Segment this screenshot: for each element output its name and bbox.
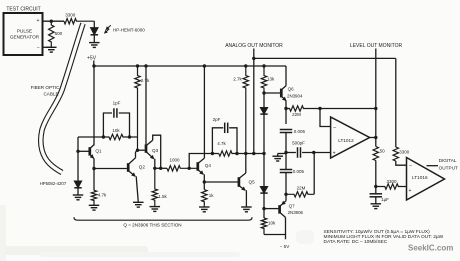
svg-text:Q2: Q2: [139, 165, 146, 170]
svg-text:22M: 22M: [297, 186, 306, 191]
wire Q4 collector down: [203, 174, 205, 189]
wire minus input: [320, 109, 331, 127]
svg-text:DATA RATE: DC – 10Mb/SEC: DATA RATE: DC – 10Mb/SEC: [324, 239, 388, 245]
resistor 50: [373, 147, 378, 161]
resistor 1000 series: [167, 166, 197, 171]
svg-text:FIBER OPTIC: FIBER OPTIC: [31, 85, 61, 90]
svg-text:4.7k: 4.7k: [98, 193, 107, 198]
transistor Q5: [238, 177, 241, 187]
wire diode D1 to output node: [263, 114, 265, 153]
wire Q1 base: [78, 150, 89, 152]
node feedback right: [128, 135, 131, 138]
resistor 2.7k second: [243, 66, 248, 154]
wire to -5V: [264, 235, 286, 240]
node output to diode column: [262, 152, 265, 155]
feedback 2 resistor wire: [189, 154, 219, 169]
svg-text:DIGITAL: DIGITAL: [439, 158, 457, 163]
node photodiode to Q1 base: [76, 150, 79, 153]
photodiode column wire: [77, 137, 79, 181]
ground mid node: [272, 155, 283, 157]
svg-text:+: +: [333, 150, 336, 156]
svg-text:OUTPUT: OUTPUT: [439, 165, 458, 170]
svg-text:3300: 3300: [386, 179, 397, 184]
light emission arrows: [106, 25, 111, 29]
svg-text:Q = 2N3906 THIS SECTION: Q = 2N3906 THIS SECTION: [123, 223, 181, 228]
wire level out monitor: [375, 49, 377, 109]
transistor Q3: [145, 144, 148, 152]
wire pulse generator output to resistor network: [43, 20, 65, 22]
node feedback tap: [318, 107, 321, 110]
node feedback left: [102, 135, 105, 138]
resistor 10k bias: [261, 218, 266, 235]
resistor 4.7k first stage: [91, 190, 96, 205]
svg-text:ANALOG OUT MONITOR: ANALOG OUT MONITOR: [225, 43, 283, 49]
wire pulse generator negative to ground: [43, 46, 52, 48]
+5V rail: [94, 65, 286, 67]
wire feedback to output: [375, 109, 377, 147]
node level monitor: [374, 107, 377, 110]
node 2pF right: [235, 152, 238, 155]
svg-text:Q4: Q4: [205, 163, 212, 168]
svg-text:1.5k: 1.5k: [158, 194, 167, 199]
transistor Q1: [88, 147, 91, 155]
wire diode column down: [263, 154, 265, 187]
transistor Q7 2N3906: [278, 205, 281, 213]
op-amp U2 LT1016: [407, 158, 445, 201]
wire Q6 collector to rail: [285, 66, 287, 86]
node rail 13k: [262, 64, 265, 67]
resistor 22M upper: [286, 106, 320, 111]
svg-text:2.7k: 2.7k: [233, 77, 242, 82]
svg-text:Q1: Q1: [95, 149, 102, 154]
resistor 3300 to comparator plus: [376, 184, 407, 189]
svg-text:500pF: 500pF: [292, 140, 305, 145]
wire Q2 collector to ground: [136, 176, 138, 202]
node Q3 collector: [153, 167, 156, 170]
wire Q3 base: [138, 149, 145, 151]
ground below photodiode: [73, 194, 84, 196]
svg-text:2pF: 2pF: [213, 117, 221, 122]
wire Q7 base: [264, 208, 278, 210]
resistor 10k feedback: [78, 134, 138, 139]
svg-text:1000: 1000: [169, 158, 180, 163]
ground below LED: [89, 42, 100, 44]
wire 13k column down: [263, 93, 265, 108]
ground below 1.5k: [150, 206, 161, 208]
svg-text:SeekIC.com: SeekIC.com: [408, 244, 453, 253]
LED HP-HEMT-6000 anode wire: [93, 21, 95, 27]
svg-text:− 5V: − 5V: [280, 244, 291, 249]
wire Q4 collector to Q5 base: [204, 181, 237, 183]
svg-text:1µF: 1µF: [381, 197, 389, 202]
resistor 13k: [261, 66, 266, 93]
ground below 4.7k: [89, 204, 100, 206]
svg-text:3300: 3300: [399, 149, 410, 154]
wire Q1 collector down: [93, 158, 95, 190]
svg-text:Q5: Q5: [249, 180, 256, 185]
node plus input: [312, 151, 315, 154]
node rail Q3: [144, 64, 147, 67]
node Q1 collector output: [92, 167, 95, 170]
svg-text:PULSE: PULSE: [17, 28, 32, 33]
ground below 1k: [199, 206, 210, 208]
wire 22M lower to plus input: [313, 153, 315, 195]
wire rail to Q3: [145, 66, 147, 144]
svg-text:LT1012: LT1012: [338, 138, 354, 143]
svg-text:LT1016: LT1016: [412, 175, 428, 180]
svg-text:LEVEL OUT MONITOR: LEVEL OUT MONITOR: [350, 43, 403, 49]
svg-text:Q6: Q6: [288, 87, 295, 92]
ground below 1uF: [371, 203, 382, 205]
svg-text:10k: 10k: [112, 128, 120, 133]
resistor 3300 series: [64, 19, 94, 24]
transistor Q2: [127, 163, 130, 172]
svg-text:+: +: [409, 188, 412, 194]
node second feedback tap: [188, 167, 191, 170]
node rail at Q1 emitter: [92, 64, 95, 67]
ground stub mid node: [278, 153, 286, 155]
ground below Q2: [133, 201, 144, 203]
wire rail to Q1 emitter: [93, 66, 95, 145]
node Q7 collector / 22M lower tap: [284, 193, 287, 196]
node 3300 tap: [374, 185, 377, 188]
wire Q6 base: [264, 92, 280, 94]
svg-text:3300: 3300: [65, 13, 76, 18]
wire op-amp output: [370, 137, 376, 139]
node Q3 base: [136, 149, 139, 152]
node op-amp output: [374, 136, 377, 139]
svg-text:0.005: 0.005: [293, 169, 305, 174]
svg-text:−: −: [333, 125, 336, 131]
transistor Q4: [196, 162, 199, 171]
feedback capacitor 1pF: [103, 113, 112, 137]
node 2pF left: [211, 152, 214, 155]
svg-text:4.7k: 4.7k: [217, 141, 226, 146]
photodiode HP5082-4207: [74, 181, 81, 188]
svg-text:HP-HEMT-6000: HP-HEMT-6000: [113, 27, 145, 32]
svg-text:−: −: [37, 45, 40, 51]
svg-text:0.005: 0.005: [294, 129, 306, 134]
node rail 2.7k: [136, 64, 139, 67]
node rail 2.7k second: [244, 64, 247, 67]
wire Q1 collector to Q2 base: [94, 168, 127, 170]
op-amp U1 LT1012: [331, 117, 370, 158]
transistor Q6 2N3904: [280, 89, 283, 98]
capacitor 2pF: [212, 128, 223, 154]
test circuit box: [4, 13, 43, 55]
node 1.5k tap: [159, 167, 162, 170]
wire second stage output line: [155, 167, 167, 169]
resistor 2.7k first: [135, 66, 140, 150]
node mid column: [284, 151, 287, 154]
wire Q3 emitter jog: [153, 135, 161, 168]
svg-text:13k: 13k: [267, 77, 275, 82]
svg-text:−: −: [409, 164, 412, 170]
svg-text:22M: 22M: [292, 112, 301, 117]
wire Q7 collector down: [285, 217, 287, 234]
wire rail to Q4 emitter: [203, 66, 205, 158]
svg-text:1pF: 1pF: [113, 101, 121, 106]
wire 50 to cap node: [375, 161, 377, 194]
wire Q3 collector down: [154, 159, 156, 169]
svg-text:TEST CIRCUIT: TEST CIRCUIT: [6, 6, 40, 12]
svg-text:2N3906: 2N3906: [288, 210, 304, 215]
wire Q6 emitter down: [285, 101, 287, 124]
svg-text:500: 500: [55, 31, 63, 36]
resistor 500: [49, 21, 54, 47]
capacitor 1uF: [370, 193, 383, 195]
svg-text:CABLE: CABLE: [43, 92, 58, 97]
node Q7 base tap: [262, 207, 265, 210]
resistor 4.7k feedback 2: [219, 151, 264, 156]
resistor 1k: [202, 190, 207, 207]
wire 3300 to minus input: [396, 161, 407, 165]
svg-text:+5V: +5V: [87, 55, 97, 61]
wire digital output stub: [427, 165, 439, 167]
wire comparator reference: [395, 58, 397, 147]
wire feedback top: [320, 108, 376, 110]
capacitor 0.005 upper: [280, 129, 293, 131]
capacitor 0.005 lower: [285, 154, 287, 170]
svg-text:Q3: Q3: [152, 148, 159, 153]
wire analog signal to comparator: [254, 57, 396, 59]
resistor 22M lower: [286, 192, 314, 197]
node 500-ohm top: [50, 20, 53, 23]
svg-text:10k: 10k: [268, 220, 276, 225]
node analog output: [244, 152, 247, 155]
diode D1: [260, 108, 267, 115]
resistor 1.5k: [152, 168, 157, 206]
fiber optic cable: [41, 24, 83, 173]
ground below 500 resistor: [46, 46, 57, 48]
svg-text:1k: 1k: [209, 193, 215, 198]
svg-text:2N3904: 2N3904: [287, 93, 303, 98]
+5V rail tick: [93, 61, 95, 67]
resistor 3300 vertical: [393, 147, 398, 161]
svg-text:Q7: Q7: [289, 203, 296, 208]
wire Q5 collector to ground: [245, 190, 247, 207]
svg-text:GENERATOR: GENERATOR: [10, 35, 40, 40]
node Q6 emitter / 22M tap: [284, 107, 287, 110]
node Q4 collector: [203, 180, 206, 183]
svg-text:50: 50: [380, 149, 386, 154]
svg-text:HP5082-4207: HP5082-4207: [40, 181, 67, 186]
LED HP-HEMT-6000: [91, 28, 99, 35]
brace Q section: [74, 217, 252, 220]
capacitor 500pF series: [286, 152, 296, 154]
node analog monitor branch: [252, 57, 255, 60]
ground below Q5: [241, 206, 252, 208]
wire analog out monitor: [253, 49, 255, 154]
diode D2: [260, 187, 267, 194]
wire Q5 emitter up: [245, 154, 247, 174]
node rail Q4: [203, 64, 206, 67]
node Q6 base tap: [262, 91, 265, 94]
svg-text:+: +: [37, 18, 40, 24]
